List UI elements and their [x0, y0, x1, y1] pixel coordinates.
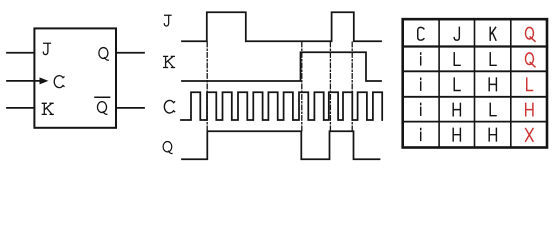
table cell L r116 c2	[490, 103, 496, 115]
pin label K	[42, 103, 53, 114]
JK flip-flop figure: symbol, timing diagram, truth table	[0, 0, 557, 169]
table cell i r141 c0	[420, 129, 422, 141]
table cell H r116 c1	[453, 103, 460, 116]
edge cursor t3	[329, 42, 331, 130]
table cell L r66 c1	[454, 53, 460, 65]
signal label K	[164, 56, 175, 67]
pin label C	[54, 76, 64, 88]
table cell Q r40 c3	[525, 27, 535, 41]
table cell L r91 c1	[454, 78, 460, 90]
table cell i r91 c0	[420, 78, 422, 90]
table cell J r40 c1	[454, 27, 459, 40]
clock arrowhead	[40, 77, 49, 84]
edge cursor t2	[301, 42, 303, 130]
signal label J	[164, 15, 171, 26]
waveform Q	[182, 131, 380, 159]
table row line 3	[403, 96, 547, 98]
waveform J	[182, 12, 381, 41]
table cell i r116 c0	[420, 103, 422, 115]
table cell C r40 c0	[418, 27, 424, 40]
table cell H r141 c1	[453, 128, 460, 141]
table row line 2	[403, 70, 547, 72]
table header separator	[403, 45, 547, 47]
wire Q output	[116, 52, 144, 54]
table cell H r116 c3	[526, 103, 533, 116]
waveform K	[182, 52, 381, 81]
edge cursor t1	[206, 42, 208, 130]
wire J input	[7, 52, 34, 54]
table cell X r141 c3	[526, 129, 533, 142]
pin label J	[43, 43, 50, 54]
wire K input	[7, 107, 34, 109]
wire Qbar output	[116, 107, 144, 109]
table cell H r91 c2	[489, 78, 496, 91]
flip-flop U1 body	[34, 28, 116, 127]
table cell i r66 c0	[420, 53, 422, 65]
table cell Q r66 c3	[525, 53, 535, 67]
table cell L r91 c3	[527, 78, 533, 90]
signal label Q	[163, 142, 172, 154]
table column line 2	[474, 19, 476, 147]
pin label Q	[99, 48, 108, 61]
waveform C clock	[181, 92, 382, 120]
edge cursor t4	[351, 42, 353, 130]
table cell L r66 c2	[490, 53, 496, 65]
table column line 3	[510, 19, 512, 147]
signal label C	[164, 100, 174, 113]
table row line 4	[403, 121, 547, 123]
table cell K r40 c2	[490, 27, 496, 40]
table cell H r141 c2	[489, 128, 496, 141]
pin label Qbar	[97, 102, 106, 115]
table column line 1	[438, 19, 440, 147]
truth table frame	[403, 19, 547, 147]
wire C clock input	[7, 80, 41, 82]
